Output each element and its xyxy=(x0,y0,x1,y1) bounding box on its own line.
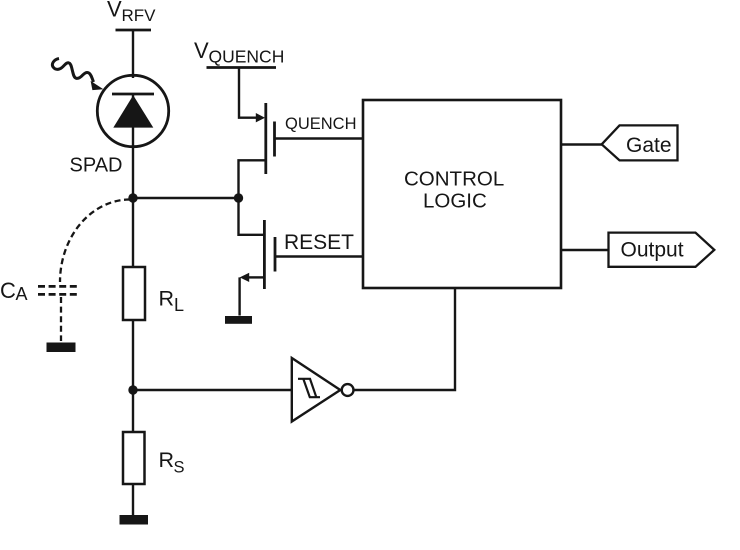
capacitor CA (parasitic, dashed) xyxy=(38,200,130,342)
wire box to Output port xyxy=(561,249,608,251)
wire RS to ground xyxy=(132,484,134,515)
wire node C to inverter input xyxy=(133,389,292,391)
svg-text:S: S xyxy=(174,459,185,477)
control logic block U1 xyxy=(363,100,561,288)
ground under M2 xyxy=(225,316,252,324)
wire box bottom to inverter output xyxy=(354,288,456,390)
svg-text:CONTROL: CONTROL xyxy=(404,168,504,191)
svg-text:L: L xyxy=(174,295,184,315)
inverter U2 (Schmitt trigger) xyxy=(292,358,354,422)
svg-text:A: A xyxy=(16,284,28,304)
port Output xyxy=(609,233,715,267)
photon arrow xyxy=(52,59,103,91)
svg-text:V: V xyxy=(194,38,209,63)
supply rail bar V_RFV xyxy=(116,29,152,32)
wire node C to RS xyxy=(132,390,134,432)
svg-text:R: R xyxy=(159,287,175,311)
wire V_QUENCH to M1 source xyxy=(239,68,257,118)
SPAD diode D1 xyxy=(97,75,168,198)
transistor M1 QUENCH (PMOS) xyxy=(239,103,275,198)
svg-text:C: C xyxy=(0,278,16,303)
wire RL to node C xyxy=(132,320,134,390)
node C xyxy=(128,385,137,394)
wire M1 gate to control logic xyxy=(275,137,364,139)
port Gate xyxy=(602,125,678,160)
resistor RL xyxy=(123,267,145,320)
wire box to Gate port xyxy=(561,143,603,145)
ground under RS xyxy=(120,515,149,525)
wire node A to transistor junction xyxy=(133,197,239,199)
wire node A to RL xyxy=(132,198,134,267)
svg-text:Output: Output xyxy=(621,239,684,262)
resistor RS xyxy=(123,432,145,484)
node junction xyxy=(234,193,243,202)
svg-text:RFV: RFV xyxy=(122,6,157,25)
wire V_RFV to SPAD xyxy=(132,30,134,78)
svg-text:LOGIC: LOGIC xyxy=(423,190,487,213)
svg-text:Gate: Gate xyxy=(626,134,672,157)
transistor M2 RESET (NMOS) xyxy=(239,198,276,316)
wire M2 gate to control logic xyxy=(275,255,363,257)
node A xyxy=(128,193,137,202)
supply rail bar V_QUENCH xyxy=(207,66,277,69)
svg-text:RESET: RESET xyxy=(284,231,354,254)
svg-text:R: R xyxy=(159,448,175,472)
svg-text:V: V xyxy=(107,0,122,22)
svg-text:QUENCH: QUENCH xyxy=(285,115,357,133)
ground under CA xyxy=(47,343,76,353)
svg-text:QUENCH: QUENCH xyxy=(209,47,285,67)
svg-text:SPAD: SPAD xyxy=(70,155,123,177)
